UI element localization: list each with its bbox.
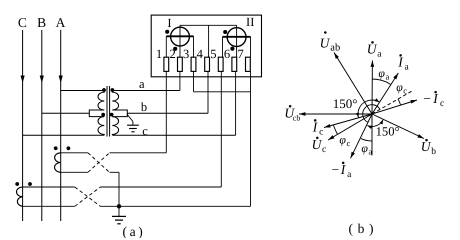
wire b from TV secondary mid tap to terminal 4 [127,112,208,114]
wire terminal 4 down to wire b [207,72,209,114]
terminal 4 [205,57,210,71]
wire TA-A secondary top out [61,152,88,154]
svg-text:c: c [347,138,351,148]
wire TA-C secondary bottom out [23,205,75,207]
crossover of TA-C secondary wires (dashed X) [75,187,101,206]
svg-text:b: b [431,147,436,157]
wire phase C line [22,30,24,221]
vector U_c [328,114,372,140]
wattmeter element II (circle, current coil, voltage coil) [236,25,238,57]
svg-text:cb: cb [293,113,301,122]
wire crossover to ground junction [100,205,119,207]
svg-text:U: U [320,36,331,51]
terminal 5 [218,57,223,71]
arc phi-a between U_a and I_a [372,79,391,84]
svg-text:ab: ab [330,43,340,54]
svg-text:6: 6 [224,47,230,61]
wire terminal 6 down to wire c [235,72,237,136]
transformer TV primary winding (left bottom coil) + lead to phase C [23,117,105,136]
wire TV primary mid tap to phase B [42,112,90,114]
svg-text:c: c [142,124,148,138]
vector U_b [372,114,424,139]
svg-text:a: a [386,71,390,81]
vector I_c [324,114,372,128]
transformer TV primary winding (left top coil) + lead to phase A [61,91,105,117]
svg-text:1: 1 [156,47,162,61]
svg-text:b: b [141,100,147,114]
svg-text:φ: φ [361,141,368,155]
svg-text:a: a [369,147,373,157]
energy meter box [151,15,261,77]
wire terminal 2 down to wire a [179,72,181,91]
svg-text:φ: φ [378,66,385,80]
arrowhead current direction on phase line [21,76,25,84]
wire phase A line [60,30,62,221]
wire crossover down to ground junction [110,171,120,173]
arc 150 deg left with arrows [358,100,379,117]
wire phase B line [41,30,43,221]
arc circle around origin [363,105,380,123]
TA-C polarity dots [15,182,19,186]
ground at TV secondary mid tap [127,114,133,122]
element I polarity dot (voltage coil) [173,47,177,51]
transformer TV secondary winding (right top coil) + wire a to terminal 2 [112,91,180,117]
svg-text:I: I [167,16,171,30]
terminal 1 [164,57,169,71]
svg-text:B: B [37,15,46,30]
svg-text:150°: 150° [376,124,400,138]
arrowhead current direction on phase line [59,76,63,84]
svg-text:U: U [367,42,378,57]
wire terminal 7 down to ground junction [250,72,252,207]
vector -I_a [351,114,373,158]
svg-text:3: 3 [183,47,189,61]
svg-text:5: 5 [210,47,216,61]
transformer TV core [106,86,108,137]
wire crossover to terminal 5 [100,186,221,188]
svg-text:2: 2 [169,47,175,61]
svg-text:U: U [312,137,323,152]
svg-text:II: II [246,15,254,29]
svg-text:c: c [322,145,326,155]
element I polarity dot (current coil) [165,30,169,34]
transformer TV secondary winding (right bottom coil) + wire c [112,117,235,136]
arrowhead current direction on phase line [40,76,44,84]
element II polarity dot (current coil) [223,30,227,34]
current transformer TA-C secondary coil on phase C [17,187,23,206]
wire TA-C secondary top out [23,186,75,188]
element II polarity dot (voltage coil) [230,47,234,51]
svg-text:c: c [319,128,323,138]
crossover of TA-A secondary wires (dashed X) [88,153,110,173]
svg-text:(b): (b) [349,221,374,236]
vector U_cb [299,113,372,115]
vector U_ab [334,53,372,115]
wire crossover to terminal 1 [110,152,167,154]
wire terminal 1 down to CT-A secondary [165,72,167,153]
svg-text:4: 4 [197,47,204,61]
wire top connection down to terminal 4 [208,25,210,57]
ground junction node [117,204,121,208]
svg-text:−: − [423,91,431,106]
terminal 6 [232,57,237,71]
svg-text:a: a [139,77,145,91]
arc phi-a between -I_a and -U_a [361,139,372,141]
arc phi-c between I_c and U_c [333,125,337,135]
svg-text:c: c [403,85,407,95]
svg-text:(a): (a) [123,224,143,238]
terminal 3 [191,57,196,71]
arc 150 deg bottom with arrows [367,120,383,127]
svg-text:C: C [18,15,27,30]
wire element I current coil ends down to terminals 1,3 [165,36,167,57]
wire TA-A secondary bottom out [61,171,88,173]
wire voltage coils top connection [180,24,237,26]
terminal 2 [178,57,183,71]
TV polarity dots [102,88,106,92]
vector U_a [371,61,373,115]
wire element II current coil ends down to terminals 5,7 [222,37,224,58]
current transformer TA-A secondary coil on phase A [55,153,61,173]
svg-text:−: − [332,162,340,177]
TA-A polarity dots [54,146,58,150]
arc phi-c between -I_c and dashed line [398,99,401,105]
svg-text:A: A [56,15,66,30]
svg-text:φ: φ [396,80,403,94]
wire terminal 3 down and right to terminal-7 wire [193,72,195,92]
svg-text:U: U [421,139,432,154]
svg-text:c: c [440,99,444,109]
terminal 7 [246,57,251,71]
svg-text:7: 7 [237,47,243,61]
vector I_a [372,73,398,114]
svg-text:φ: φ [339,133,346,147]
line -U_a reference downward [371,114,373,156]
ground symbol at secondary circuit [118,206,120,216]
wire terminal 5 down to CT-C secondary [220,72,222,187]
vector -I_c [372,100,417,114]
wattmeter element I (circle, current coil, voltage coil) [179,25,181,57]
dashed reference line at phi-c above -I_c [372,91,412,114]
svg-text:150°: 150° [333,96,358,111]
